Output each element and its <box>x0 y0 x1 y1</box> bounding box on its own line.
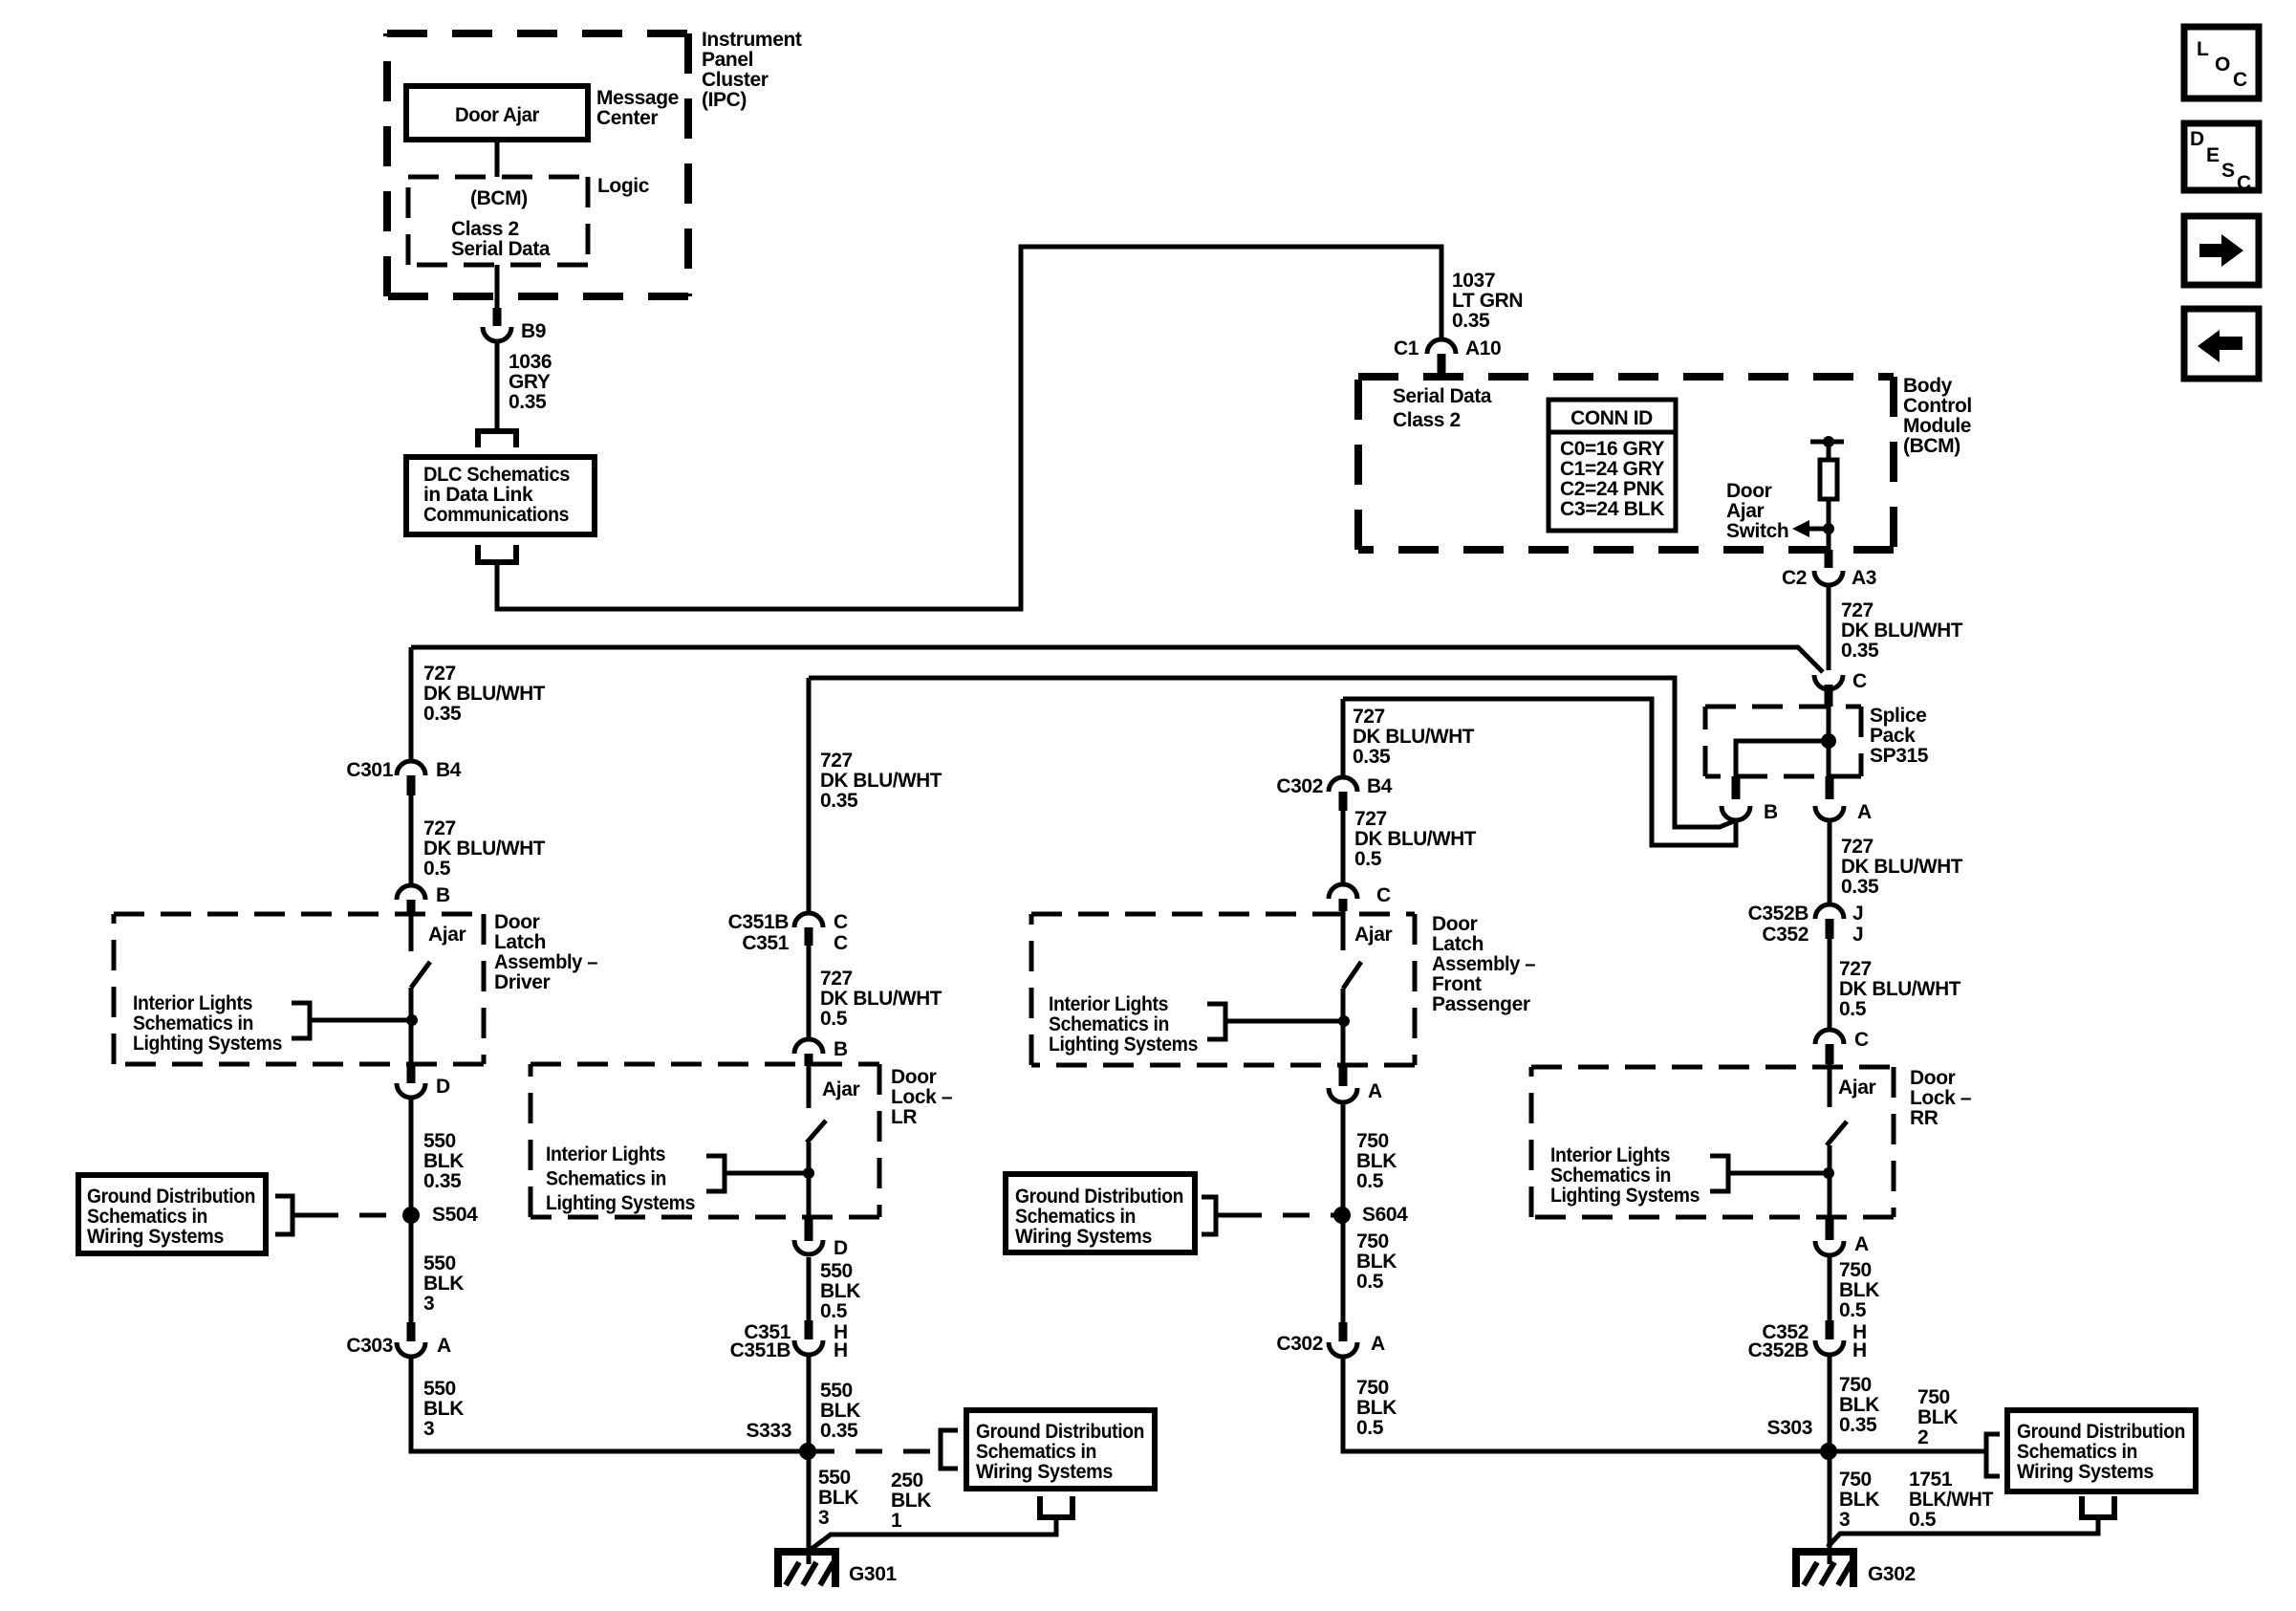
connector C1 pin stub <box>1438 354 1446 375</box>
ajar switch blade FP <box>1343 962 1361 989</box>
svg-text:Schematics in: Schematics in <box>546 1168 666 1190</box>
connector B driver latch <box>397 885 425 900</box>
svg-text:Ground Distribution: Ground Distribution <box>87 1186 255 1208</box>
connector C303 / A <box>397 1342 425 1357</box>
dashed link S504 to ground distribution callout <box>312 1213 411 1218</box>
svg-text:A: A <box>437 1335 451 1357</box>
svg-text:0.5: 0.5 <box>820 1300 848 1322</box>
svg-text:727: 727 <box>820 750 853 772</box>
svg-text:LR: LR <box>891 1106 917 1128</box>
svg-text:Schematics in: Schematics in <box>976 1441 1096 1463</box>
splice pack connector A <box>1815 806 1844 820</box>
svg-text:A: A <box>1854 1233 1869 1255</box>
svg-text:Serial Data: Serial Data <box>1393 385 1492 407</box>
svg-text:Switch: Switch <box>1726 520 1788 542</box>
Door Ajar message-center box <box>406 86 588 140</box>
BCM internal node dot <box>1823 436 1834 447</box>
door ajar switch arrowhead <box>1792 520 1809 537</box>
svg-text:Driver: Driver <box>494 971 551 993</box>
svg-text:Splice: Splice <box>1870 705 1926 727</box>
svg-text:A: A <box>1371 1333 1385 1355</box>
svg-text:Interior Lights: Interior Lights <box>1049 993 1168 1015</box>
wire C301 to B (727 0.5) <box>409 795 414 887</box>
wire ajar fixed contact FP <box>1341 911 1346 950</box>
svg-text:BLK: BLK <box>1839 1279 1879 1301</box>
svg-text:C303: C303 <box>346 1335 393 1357</box>
svg-text:BLK: BLK <box>423 1398 464 1420</box>
svg-text:LT GRN: LT GRN <box>1452 290 1523 312</box>
svg-text:Body: Body <box>1903 375 1953 397</box>
svg-text:C302: C302 <box>1276 1333 1323 1355</box>
connector D driver <box>397 1083 425 1098</box>
right arrow icon <box>2199 244 2222 257</box>
svg-text:Front: Front <box>1432 973 1482 995</box>
svg-text:A: A <box>1857 801 1872 823</box>
svg-text:Class 2: Class 2 <box>1393 409 1461 431</box>
svg-text:C352B: C352B <box>1748 1339 1809 1361</box>
svg-text:Wiring Systems: Wiring Systems <box>976 1461 1113 1483</box>
door ajar switch node dot <box>1823 523 1834 534</box>
svg-text:550: 550 <box>820 1380 853 1402</box>
door ajar switch arrow wire <box>1809 527 1829 532</box>
svg-text:3: 3 <box>423 1293 434 1315</box>
svg-text:727: 727 <box>820 968 853 990</box>
svg-text:750: 750 <box>1839 1469 1872 1491</box>
svg-text:0.35: 0.35 <box>1841 876 1879 898</box>
wire bus L2 splice B to LR door lock <box>809 678 1736 827</box>
svg-text:1036: 1036 <box>509 351 552 373</box>
ajar switch blade driver <box>411 962 430 988</box>
svg-text:0.5: 0.5 <box>1356 1417 1384 1439</box>
svg-text:RR: RR <box>1910 1107 1939 1129</box>
wire C351B to S333 and G301 <box>807 1355 812 1564</box>
svg-text:Door: Door <box>1432 913 1478 935</box>
connector C at splice pack top <box>1814 675 1843 689</box>
svg-text:B: B <box>1764 801 1778 823</box>
Door Lock LR dashed box <box>531 1062 879 1067</box>
svg-text:Interior Lights: Interior Lights <box>546 1143 665 1165</box>
off-page connector bracket above DLC box <box>478 431 516 447</box>
svg-text:Interior Lights: Interior Lights <box>1550 1144 1670 1166</box>
svg-text:0.5: 0.5 <box>1909 1509 1937 1531</box>
connector D LR <box>794 1240 823 1254</box>
wire L2 corner down to C351B (LR) <box>807 678 812 915</box>
wire D to S504 (550 BLK) <box>409 1098 414 1324</box>
wire junction to bracket FP <box>1227 1019 1344 1024</box>
svg-text:0.35: 0.35 <box>820 1420 858 1442</box>
svg-text:1751: 1751 <box>1909 1469 1953 1491</box>
Door Lock RR dashed box <box>1531 1065 1894 1070</box>
svg-text:Ajar: Ajar <box>1838 1077 1875 1099</box>
wire resistor to switch node <box>1827 499 1831 532</box>
svg-text:0.35: 0.35 <box>1839 1414 1877 1436</box>
wire ajar fixed contact RR <box>1828 1064 1832 1107</box>
wire C302 to C (FP) <box>1341 811 1346 886</box>
svg-text:3: 3 <box>818 1507 829 1529</box>
svg-text:C3=24 BLK: C3=24 BLK <box>1560 498 1664 520</box>
wire 750 BLK 2 from S303 to ground callout <box>1829 1449 1986 1454</box>
svg-text:Control: Control <box>1903 395 1972 417</box>
svg-text:in Data Link: in Data Link <box>423 484 533 506</box>
Logic dashed box (BCM Class 2 Serial Data) <box>408 175 588 180</box>
svg-text:H: H <box>1852 1339 1867 1361</box>
wire Logic box to connector B9 <box>495 265 500 310</box>
connector C2 / A3 <box>1814 571 1843 585</box>
svg-text:Lock –: Lock – <box>1910 1087 1972 1109</box>
svg-text:H: H <box>834 1339 848 1361</box>
svg-text:Wiring Systems: Wiring Systems <box>2017 1461 2154 1483</box>
svg-text:A: A <box>1368 1080 1382 1102</box>
wire switch to output LR <box>807 1143 812 1217</box>
svg-text:Center: Center <box>596 107 658 129</box>
svg-text:750: 750 <box>1839 1259 1872 1281</box>
connector C352 lower pin stub <box>1826 1320 1834 1339</box>
svg-text:C302: C302 <box>1276 775 1323 797</box>
ajar switch blade LR <box>807 1121 826 1143</box>
connector B LR lock <box>794 1039 823 1054</box>
splice pack connector B <box>1722 806 1750 820</box>
svg-text:Wiring Systems: Wiring Systems <box>1015 1226 1152 1248</box>
connector A FP <box>1329 1088 1357 1102</box>
LOC nav box <box>2184 27 2259 98</box>
svg-text:BLK: BLK <box>423 1273 464 1295</box>
svg-text:J: J <box>1852 903 1863 925</box>
BCM internal supply bar <box>1810 440 1844 445</box>
svg-text:BLK: BLK <box>820 1280 860 1302</box>
svg-text:0.5: 0.5 <box>423 858 451 880</box>
junction S604 dot <box>1333 1207 1351 1224</box>
svg-text:750: 750 <box>1839 1374 1872 1396</box>
Body Control Module dashed box <box>1358 373 1894 381</box>
wire junction to bracket LR <box>725 1171 809 1176</box>
svg-text:Ajar: Ajar <box>1354 924 1392 946</box>
svg-text:G302: G302 <box>1868 1563 1916 1585</box>
svg-text:Cluster: Cluster <box>702 69 769 91</box>
splice pack B pin stub <box>1732 776 1741 799</box>
svg-text:S604: S604 <box>1362 1204 1408 1226</box>
svg-text:Door Ajar: Door Ajar <box>455 104 539 126</box>
svg-text:Interior Lights: Interior Lights <box>133 992 252 1014</box>
svg-text:C: C <box>1854 1029 1869 1051</box>
svg-text:D: D <box>2190 128 2204 150</box>
svg-text:0.5: 0.5 <box>1356 1170 1384 1192</box>
svg-text:Ajar: Ajar <box>822 1078 859 1100</box>
svg-text:3: 3 <box>423 1418 434 1440</box>
connector B9 pin stub <box>493 308 502 326</box>
FP junction dot <box>1338 1015 1350 1027</box>
wire junction to interior lights bracket driver <box>310 1018 412 1023</box>
wire A to S604 (750 BLK) <box>1341 1102 1346 1324</box>
svg-text:C: C <box>834 932 848 954</box>
connector C351 / C351B lower <box>794 1340 823 1355</box>
connector B pin stub into LR box <box>805 1054 813 1066</box>
svg-text:BLK: BLK <box>1917 1406 1958 1428</box>
wire ajar fixed contact LR <box>807 1066 812 1108</box>
svg-text:D: D <box>834 1237 848 1259</box>
svg-text:DK BLU/WHT: DK BLU/WHT <box>1841 620 1963 642</box>
CONN ID table box <box>1549 400 1676 531</box>
svg-text:750: 750 <box>1356 1230 1389 1252</box>
svg-text:Door: Door <box>1726 480 1772 502</box>
svg-text:E: E <box>2206 144 2220 166</box>
svg-text:SP315: SP315 <box>1870 745 1929 767</box>
svg-text:0.5: 0.5 <box>1839 1299 1867 1321</box>
svg-text:750: 750 <box>1356 1377 1389 1399</box>
svg-text:250: 250 <box>891 1469 923 1491</box>
DLC Schematics box <box>406 457 595 534</box>
interior lights bracket driver <box>292 1003 310 1038</box>
wire ajar switch fixed contact driver <box>409 912 414 951</box>
wire DLC to BCM serial data (1037 circuit) long route <box>497 247 1441 609</box>
left arrow icon <box>2220 337 2242 350</box>
svg-text:Lighting Systems: Lighting Systems <box>1550 1185 1700 1207</box>
splice pack junction dot <box>1821 733 1836 749</box>
svg-text:C2: C2 <box>1782 567 1807 589</box>
svg-text:727: 727 <box>1353 706 1385 728</box>
svg-text:B: B <box>834 1038 848 1060</box>
svg-text:0.5: 0.5 <box>1354 848 1382 870</box>
svg-text:(IPC): (IPC) <box>702 89 747 111</box>
svg-text:BLK: BLK <box>891 1490 931 1512</box>
svg-text:BLK: BLK <box>423 1150 464 1172</box>
svg-text:S504: S504 <box>432 1204 478 1226</box>
svg-text:0.35: 0.35 <box>423 1170 462 1192</box>
previous-page nav box <box>2184 309 2259 379</box>
connector C RR lock <box>1815 1030 1844 1044</box>
wire switch to output RR <box>1828 1145 1832 1217</box>
svg-text:0.35: 0.35 <box>820 790 858 812</box>
wire switch to latch output driver <box>409 988 414 1064</box>
splice pack internal wire to B <box>1736 741 1829 776</box>
ajar switch blade RR <box>1827 1121 1847 1145</box>
LR D pin stub <box>805 1217 813 1241</box>
svg-text:Ground Distribution: Ground Distribution <box>2017 1421 2185 1443</box>
interior lights bracket LR <box>706 1156 725 1191</box>
svg-text:0.35: 0.35 <box>423 703 462 725</box>
connector C301 pin stub <box>407 775 416 795</box>
wire 1751 BLK/WHT from G302 to U bracket <box>1828 1517 2098 1547</box>
svg-text:0.35: 0.35 <box>1353 746 1391 768</box>
connector C FP latch <box>1329 884 1357 899</box>
svg-text:Latch: Latch <box>1432 933 1484 955</box>
wire C2 to splice pack C (727 circuit) <box>1827 585 1831 670</box>
wire switch node to C2 <box>1827 529 1831 552</box>
ground G301 symbol <box>774 1548 839 1556</box>
CONN ID table title separator <box>1549 430 1676 435</box>
svg-text:D: D <box>436 1076 450 1098</box>
svg-text:A10: A10 <box>1465 337 1501 359</box>
svg-text:BLK: BLK <box>820 1400 860 1422</box>
svg-text:C: C <box>834 911 848 933</box>
wire C352B to S303 and G302 <box>1828 1355 1832 1564</box>
interior lights bracket FP <box>1207 1004 1225 1039</box>
svg-text:DK BLU/WHT: DK BLU/WHT <box>820 770 942 792</box>
resistor (door ajar switch pull-up) <box>1820 460 1837 499</box>
ground G302 symbol <box>1792 1548 1857 1556</box>
svg-text:BLK: BLK <box>1839 1394 1879 1416</box>
Door Latch Assembly Front Passenger dashed box <box>1031 912 1415 917</box>
svg-text:Message: Message <box>596 87 679 109</box>
svg-text:Schematics in: Schematics in <box>1049 1013 1169 1035</box>
svg-text:(BCM): (BCM) <box>470 187 528 209</box>
wire corner down to C302 (front passenger) <box>1341 699 1346 779</box>
svg-text:Class 2: Class 2 <box>451 218 519 240</box>
svg-text:727: 727 <box>423 663 456 685</box>
svg-text:Ajar: Ajar <box>428 924 466 946</box>
svg-text:Door: Door <box>891 1066 937 1088</box>
svg-text:727: 727 <box>1839 958 1872 980</box>
svg-text:S333: S333 <box>747 1420 791 1442</box>
svg-text:DK BLU/WHT: DK BLU/WHT <box>1839 978 1961 1000</box>
svg-text:Serial Data: Serial Data <box>451 238 551 260</box>
svg-text:Communications: Communications <box>423 504 569 526</box>
svg-text:DK BLU/WHT: DK BLU/WHT <box>1841 856 1963 878</box>
svg-text:GRY: GRY <box>509 371 551 393</box>
svg-text:B4: B4 <box>436 759 462 781</box>
svg-text:Schematics in: Schematics in <box>87 1206 207 1228</box>
svg-text:C301: C301 <box>346 759 393 781</box>
svg-text:L: L <box>2197 38 2209 60</box>
svg-text:DK BLU/WHT: DK BLU/WHT <box>423 683 546 705</box>
svg-text:C351: C351 <box>742 932 789 954</box>
svg-text:Lighting Systems: Lighting Systems <box>1049 1034 1198 1056</box>
splice pack internal wire vertical <box>1827 707 1831 776</box>
wire splice B to front passenger latch <box>1343 699 1736 845</box>
interior lights bracket RR <box>1710 1156 1728 1191</box>
RR A pin stub <box>1826 1217 1834 1240</box>
svg-text:C351B: C351B <box>728 911 790 933</box>
DESC nav box <box>2184 123 2259 190</box>
svg-text:S: S <box>2221 160 2235 182</box>
svg-text:550: 550 <box>818 1467 851 1489</box>
RR junction dot <box>1823 1167 1834 1179</box>
connector C351B pin stub <box>805 927 813 946</box>
svg-text:0.35: 0.35 <box>509 391 547 413</box>
svg-text:B: B <box>436 884 450 906</box>
LR junction dot <box>803 1167 814 1179</box>
svg-text:S303: S303 <box>1767 1417 1812 1439</box>
connector C pin stub into FP box <box>1339 899 1348 911</box>
svg-text:Door: Door <box>494 911 540 933</box>
svg-text:Latch: Latch <box>494 931 546 953</box>
svg-text:BLK: BLK <box>1356 1251 1397 1273</box>
connector C301 / B4 <box>397 761 425 775</box>
svg-text:C: C <box>2233 69 2247 91</box>
svg-text:727: 727 <box>423 817 456 839</box>
svg-text:BLK: BLK <box>1356 1397 1397 1419</box>
svg-text:Schematics in: Schematics in <box>1550 1165 1671 1186</box>
svg-text:B9: B9 <box>521 320 546 342</box>
svg-text:BLK/WHT: BLK/WHT <box>1909 1489 1994 1511</box>
connector C1 / A10 <box>1427 339 1456 354</box>
svg-text:2: 2 <box>1917 1426 1928 1448</box>
off-page U bracket below S333 callout <box>1040 1496 1072 1517</box>
driver latch D pin stub <box>407 1064 416 1083</box>
connector C351 lower pin stub <box>805 1320 813 1339</box>
FP A pin stub <box>1339 1065 1348 1086</box>
svg-text:0.5: 0.5 <box>820 1008 848 1030</box>
svg-text:Panel: Panel <box>702 49 753 71</box>
svg-text:B4: B4 <box>1367 775 1393 797</box>
svg-text:Passenger: Passenger <box>1432 993 1530 1015</box>
connector C302 pin stub <box>1339 792 1348 811</box>
wire L1 corner down to C301 (driver) <box>409 647 414 763</box>
svg-text:C1: C1 <box>1394 337 1419 359</box>
svg-text:750: 750 <box>1917 1386 1950 1408</box>
svg-text:G301: G301 <box>849 1563 897 1585</box>
svg-text:C: C <box>1852 670 1867 692</box>
wire D to C351 lower (550 BLK 0.5) <box>807 1257 812 1322</box>
connector C351B / C351 upper <box>794 913 823 927</box>
svg-text:C352: C352 <box>1762 924 1809 946</box>
svg-text:0.5: 0.5 <box>1839 998 1867 1020</box>
junction S303 dot <box>1820 1443 1837 1460</box>
svg-text:DK BLU/WHT: DK BLU/WHT <box>820 988 942 1010</box>
IPC dashed enclosure box (Instrument Panel Cluster) <box>387 30 688 37</box>
connector B9 <box>483 327 511 341</box>
svg-text:BLK: BLK <box>1839 1489 1879 1511</box>
svg-text:Lighting Systems: Lighting Systems <box>546 1192 695 1214</box>
svg-text:Schematics in: Schematics in <box>133 1012 253 1034</box>
Ground Distribution callout box S333 <box>966 1410 1155 1489</box>
wire bar to resistor <box>1827 442 1831 462</box>
off-page connector bracket below DLC box <box>478 545 516 562</box>
connector C pin stub into RR box <box>1826 1044 1834 1064</box>
ground distribution bracket S504 <box>275 1196 292 1234</box>
Ground Distribution callout box S604 <box>1006 1174 1195 1252</box>
connector C303 pin stub <box>407 1322 416 1341</box>
svg-text:Pack: Pack <box>1870 725 1916 747</box>
svg-text:CONN ID: CONN ID <box>1570 407 1653 429</box>
Ground Distribution callout box S303 <box>2007 1410 2196 1491</box>
connector C352B / C352 upper <box>1815 904 1844 919</box>
svg-text:Ground Distribution: Ground Distribution <box>976 1421 1144 1443</box>
svg-text:0.35: 0.35 <box>1841 640 1879 662</box>
dashed link S604 to ground callout <box>1235 1213 1342 1218</box>
wire Door Ajar box to Logic box <box>495 140 500 177</box>
svg-text:BLK: BLK <box>818 1487 858 1509</box>
connector C302 / B4 <box>1329 777 1357 792</box>
svg-text:0.35: 0.35 <box>1452 310 1490 332</box>
svg-text:C: C <box>1376 884 1391 906</box>
svg-text:BLK: BLK <box>1356 1150 1397 1172</box>
svg-text:DK BLU/WHT: DK BLU/WHT <box>423 838 546 860</box>
svg-text:(BCM): (BCM) <box>1903 435 1960 457</box>
wire C302 to S303 <box>1343 1357 1829 1451</box>
svg-text:Assembly –: Assembly – <box>1432 953 1536 975</box>
svg-text:1: 1 <box>891 1510 902 1532</box>
svg-text:Logic: Logic <box>597 175 650 197</box>
svg-text:O: O <box>2215 54 2230 76</box>
off-page U bracket below S303 callout <box>2082 1496 2114 1517</box>
svg-text:Ground Distribution: Ground Distribution <box>1015 1186 1183 1208</box>
ground distribution bracket S333 <box>941 1430 958 1469</box>
svg-text:Module: Module <box>1903 415 1971 437</box>
junction S504 dot <box>402 1207 420 1224</box>
svg-text:C351B: C351B <box>730 1339 791 1361</box>
svg-text:750: 750 <box>1356 1130 1389 1152</box>
Door Latch Assembly Driver dashed box <box>114 912 484 917</box>
wire C352 to C (RR) <box>1828 939 1832 1032</box>
svg-text:550: 550 <box>423 1130 456 1152</box>
svg-text:Lock –: Lock – <box>891 1086 953 1108</box>
svg-text:C: C <box>2237 172 2251 194</box>
connector A RR <box>1815 1241 1844 1255</box>
svg-text:Ajar: Ajar <box>1726 500 1764 522</box>
svg-text:550: 550 <box>820 1260 853 1282</box>
wire C351 to B (LR) <box>807 946 812 1041</box>
wire switch to output FP <box>1341 989 1346 1065</box>
